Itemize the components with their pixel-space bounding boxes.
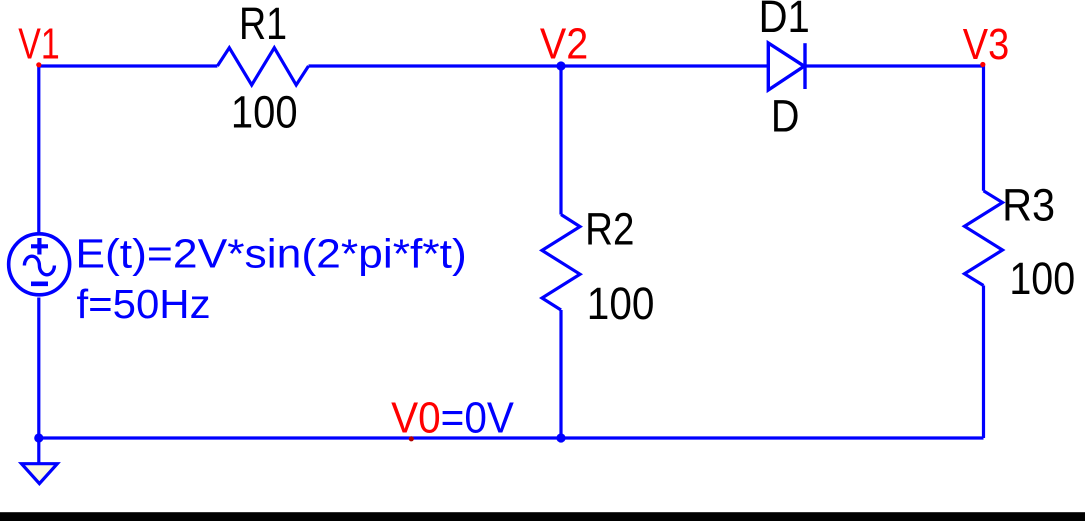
source equation text line 1: [75, 231, 466, 277]
resistor R2: [542, 215, 580, 311]
voltage source E1 circle: [9, 234, 70, 295]
resistor R1: [217, 48, 308, 85]
svg-text:E(t)=2V*sin(2*pi*f*t): E(t)=2V*sin(2*pi*f*t): [75, 231, 466, 277]
diode D1: [768, 43, 805, 90]
svg-text:R2: R2: [585, 204, 634, 254]
value D of D1: [771, 91, 800, 141]
wire R1 to diode anode (through node V2): [309, 64, 769, 67]
junction V2: [556, 61, 565, 70]
svg-text:f=50Hz: f=50Hz: [76, 280, 210, 326]
node label V3: [963, 19, 1009, 68]
svg-text:R1: R1: [239, 0, 287, 49]
voltage source sine wave: [24, 256, 54, 275]
junction R2 bottom: [556, 433, 565, 442]
bottom rail wire V0: [39, 436, 984, 439]
svg-text:100: 100: [1009, 254, 1075, 304]
svg-text:V3: V3: [963, 19, 1009, 68]
svg-text:100: 100: [587, 279, 655, 329]
value 100 of R1: [231, 87, 298, 138]
node dot V0: [409, 436, 414, 441]
svg-text:D: D: [771, 91, 800, 141]
svg-text:V0=0V: V0=0V: [391, 393, 515, 442]
svg-text:D1: D1: [759, 0, 810, 43]
label R1: [239, 0, 287, 49]
taskbar black strip: [0, 512, 1085, 521]
node label V2: [540, 19, 588, 68]
value 100 of R2: [587, 279, 655, 329]
svg-text:V2: V2: [540, 19, 588, 68]
svg-text:100: 100: [231, 87, 298, 138]
wire source bottom to bottom rail: [37, 298, 40, 439]
svg-text:V1: V1: [18, 19, 59, 68]
wire diode cathode to V3 corner and down to R3: [805, 66, 984, 191]
wire V1 corner: left vertical down to source, top horizontal to R1: [39, 66, 218, 233]
value 100 of R3: [1009, 254, 1075, 304]
label D1: [759, 0, 810, 43]
label R2: [585, 204, 634, 254]
junction ground: [34, 433, 43, 442]
ground: [22, 464, 58, 484]
voltage source minus sign: [31, 281, 48, 286]
node label V1: [18, 19, 59, 68]
node dot V1: [36, 62, 41, 67]
label R3: [1002, 181, 1055, 231]
resistor R3: [965, 191, 1003, 286]
source equation text line 2: [76, 280, 210, 326]
node dot V3: [980, 62, 985, 67]
node label V0=0V: [391, 393, 515, 442]
ground stub wire: [37, 438, 40, 463]
wire R3 to bottom rail: [982, 286, 985, 439]
wire R2 to bottom rail: [559, 310, 562, 438]
svg-text:R3: R3: [1002, 181, 1055, 231]
voltage source plus sign: [31, 238, 48, 255]
wire node V2 down to R2: [559, 66, 562, 215]
